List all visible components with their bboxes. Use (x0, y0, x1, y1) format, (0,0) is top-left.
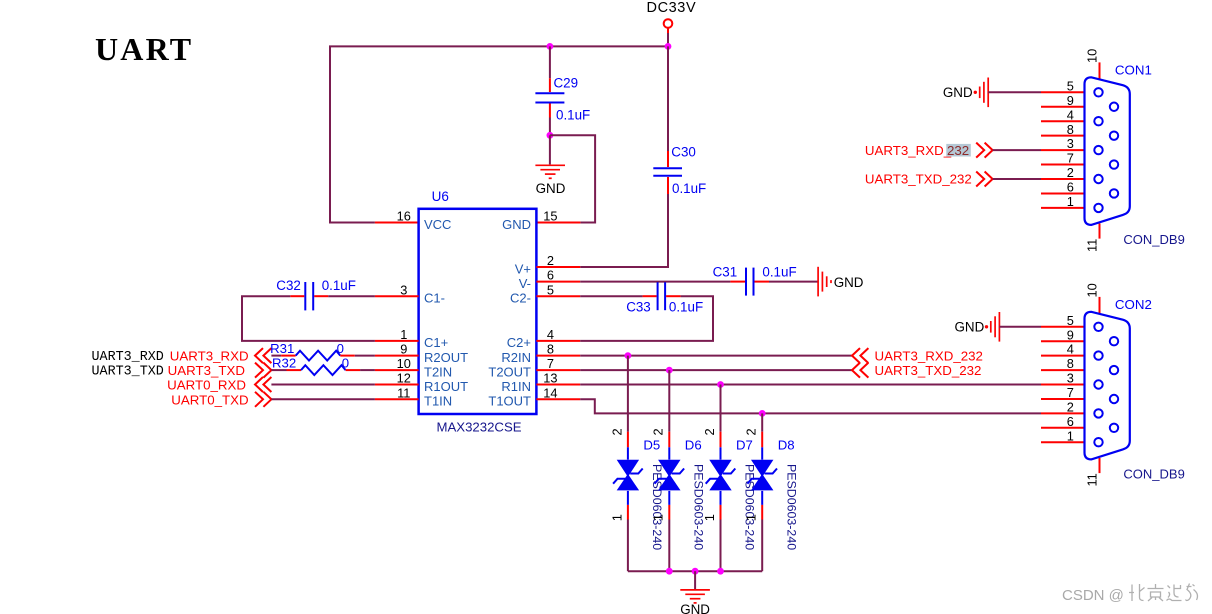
node junction C29 bottom (547, 132, 554, 139)
svg-text:C31: C31 (713, 265, 738, 280)
wire C32 left to C1+ row (242, 296, 375, 341)
ground symbol bottom (680, 590, 710, 614)
U6 pin 11 T1IN (375, 385, 419, 400)
svg-text:4: 4 (547, 327, 554, 342)
svg-text:5: 5 (1067, 313, 1074, 328)
svg-text:12: 12 (397, 371, 411, 386)
svg-text:5: 5 (1067, 78, 1074, 93)
wire port to R32 (271, 369, 301, 371)
svg-text:1: 1 (400, 327, 407, 342)
wire DC33V stub (667, 33, 669, 46)
wire GND stem bottom (694, 571, 696, 589)
resistor R32 (272, 356, 349, 375)
svg-text:UART3_RXD: UART3_RXD (92, 350, 164, 365)
svg-text:1: 1 (651, 514, 666, 521)
svg-text:C2+: C2+ (507, 335, 531, 350)
svg-text:1: 1 (744, 514, 759, 521)
svg-text:CON1: CON1 (1115, 62, 1152, 77)
svg-text:1: 1 (1067, 194, 1074, 209)
svg-text:2: 2 (609, 428, 624, 435)
svg-text:3: 3 (1067, 136, 1074, 151)
wire C29 junction to GND (549, 135, 551, 164)
svg-text:0.1uF: 0.1uF (556, 108, 590, 123)
wire C1- row to C32 (314, 295, 375, 297)
svg-text:0: 0 (337, 341, 344, 356)
svg-text:2: 2 (702, 428, 717, 435)
wire port to CON1 pin 2 (993, 178, 1041, 180)
svg-text:UART3_TXD_232: UART3_TXD_232 (865, 172, 972, 187)
wire T1OUT row to CON2 pin 2 (580, 399, 1041, 413)
wire C30 bottom stub (667, 177, 669, 194)
U6 pin 14 T1OUT (536, 385, 580, 400)
CON2 pin 2 (1041, 400, 1085, 415)
CON1 pin 6 (1041, 180, 1085, 195)
watermark CSDN (1062, 584, 1198, 605)
svg-text:1: 1 (702, 514, 717, 521)
svg-text:11: 11 (1084, 473, 1099, 486)
svg-text:R2IN: R2IN (501, 350, 531, 365)
svg-text:UART0_TXD: UART0_TXD (171, 392, 248, 407)
svg-text:7: 7 (1067, 151, 1074, 166)
port UART3_RXD (170, 348, 272, 364)
svg-text:CON_DB9: CON_DB9 (1123, 466, 1184, 481)
svg-text:R1IN: R1IN (501, 379, 531, 394)
capacitor C30 (653, 144, 706, 196)
svg-text:6: 6 (547, 268, 554, 283)
svg-text:9: 9 (1067, 93, 1074, 108)
node junction D8 top (759, 410, 766, 417)
wire C29 top stub (549, 46, 551, 92)
wire bottom bus (628, 570, 762, 572)
svg-text:PESD0603-240: PESD0603-240 (784, 464, 798, 550)
svg-text:T1OUT: T1OUT (488, 394, 531, 409)
wire D6 bottom (668, 505, 670, 571)
svg-text:U6: U6 (432, 189, 449, 204)
svg-text:C30: C30 (671, 144, 696, 159)
connector CON1 DB9 body (1085, 62, 1185, 247)
svg-text:C2-: C2- (510, 291, 531, 306)
svg-text:10: 10 (1084, 49, 1099, 63)
svg-text:10: 10 (1084, 283, 1099, 297)
svg-text:2: 2 (744, 428, 759, 435)
CON1 pin 10 (1084, 49, 1099, 79)
svg-text:PESD0603-240: PESD0603-240 (692, 464, 706, 550)
svg-text:9: 9 (400, 342, 407, 357)
ground symbol right of C31 (818, 267, 864, 297)
svg-text:CON_DB9: CON_DB9 (1123, 232, 1184, 247)
svg-text:D6: D6 (685, 437, 702, 452)
CON1 pin 2 (1041, 165, 1085, 180)
svg-text:2: 2 (1067, 400, 1074, 415)
wire R32 to pin 10 (346, 369, 375, 371)
diode D6 PESD0603-240 (651, 428, 706, 550)
svg-text:GND: GND (955, 320, 985, 335)
svg-text:3: 3 (1067, 371, 1074, 386)
U6 pin 10 T2IN (375, 356, 419, 371)
capacitor C32 (276, 278, 356, 310)
svg-text:C33: C33 (626, 299, 651, 314)
power symbol DC33V (647, 0, 697, 33)
CON1 pin 5 (1041, 78, 1085, 93)
svg-text:VCC: VCC (424, 217, 451, 232)
CON1 pin 3 (1041, 136, 1085, 151)
CON2 holes right column (1110, 337, 1118, 432)
wire C30 top stub (667, 151, 669, 167)
svg-text:T2OUT: T2OUT (488, 364, 531, 379)
CON1 pin 7 (1041, 151, 1085, 166)
svg-text:8: 8 (547, 342, 554, 357)
svg-text:R2OUT: R2OUT (424, 350, 468, 365)
wire port to R31 (271, 355, 295, 357)
wire R31 to pin 9 (340, 355, 375, 357)
CON1 pin 9 (1041, 93, 1085, 108)
svg-text:2: 2 (1067, 165, 1074, 180)
svg-text:2: 2 (547, 253, 554, 268)
connector CON2 DB9 body (1085, 297, 1185, 482)
svg-text:UART3_TXD: UART3_TXD (168, 363, 245, 378)
svg-text:GND: GND (536, 181, 566, 196)
CON2 pin 11 (1084, 458, 1099, 487)
wire CON2 GND to pin 5 (999, 326, 1041, 328)
capacitor C29 (535, 76, 590, 123)
wire C2- row to C33 (580, 295, 656, 297)
svg-text:D5: D5 (643, 437, 660, 452)
svg-text:0.1uF: 0.1uF (322, 278, 356, 293)
CON2 pin 4 (1041, 342, 1085, 357)
wire C29 bottom stub (549, 104, 551, 136)
svg-text:UART: UART (95, 31, 193, 67)
wire D6 top (668, 370, 670, 447)
svg-text:0: 0 (342, 356, 349, 371)
resistor R31 (270, 341, 344, 360)
CON2 pin 1 (1041, 428, 1085, 443)
U6 pin 6 V- (536, 268, 580, 283)
svg-text:0.1uF: 0.1uF (762, 265, 796, 280)
svg-text:R31: R31 (270, 341, 294, 356)
U6 pin 16 VCC (375, 209, 419, 224)
svg-text:UART3_RXD_: UART3_RXD_ (865, 143, 952, 158)
svg-text:CON2: CON2 (1115, 297, 1152, 312)
svg-text:10: 10 (397, 356, 411, 371)
svg-text:5: 5 (547, 282, 554, 297)
svg-text:DC33V: DC33V (647, 0, 697, 16)
CON1 pin 11 (1084, 224, 1099, 253)
svg-text:GND: GND (502, 217, 531, 232)
CON2 pin 5 (1041, 313, 1085, 328)
node junction D6 top (666, 367, 673, 374)
port UART3_RXD_232 right (852, 348, 983, 364)
port UART3_TXD_232 CON1 (865, 172, 993, 187)
port UART3_TXD_232 right (852, 363, 981, 379)
node junction bus GND stem (692, 568, 699, 575)
svg-text:7: 7 (1067, 385, 1074, 400)
CON2 pin 9 (1041, 327, 1085, 342)
node junction bus D7 (717, 568, 724, 575)
CON2 pin 10 (1084, 283, 1099, 313)
node junction D5 top (625, 352, 632, 359)
port UART3_RXD_232 CON1 (865, 143, 993, 158)
wire R2IN row (580, 355, 852, 357)
svg-text:C29: C29 (554, 76, 579, 91)
wire CON1 GND to pin 5 (988, 91, 1041, 93)
U6 pin 13 R1IN (536, 371, 580, 386)
capacitor C31 (713, 265, 797, 296)
svg-text:UART3_TXD: UART3_TXD (92, 364, 164, 379)
svg-text:R32: R32 (272, 356, 296, 371)
wire GND net to pin 15 (550, 135, 595, 222)
svg-text:7: 7 (547, 356, 554, 371)
port UART3_TXD (168, 363, 272, 379)
svg-text:PESD0603-240: PESD0603-240 (743, 464, 757, 550)
U6 pin 1 C1+ (375, 327, 419, 342)
net label UART3_RXD black (92, 350, 164, 365)
U6 pin 12 R1OUT (375, 371, 419, 386)
CON1 holes right column (1110, 103, 1118, 198)
node junction C29 top (547, 43, 554, 50)
U6 pin 8 R2IN (536, 342, 580, 357)
wire V- row to C31 (580, 281, 745, 283)
CON1 pin 4 (1041, 107, 1085, 122)
CON1 holes left column (1094, 88, 1102, 212)
svg-text:13: 13 (543, 371, 557, 386)
U6 pin names right column (488, 217, 531, 409)
wire port to CON1 pin 3 (993, 149, 1041, 151)
diode D8 PESD0603-240 (744, 428, 799, 550)
svg-text:D7: D7 (736, 437, 753, 452)
svg-text:UART3_RXD_232: UART3_RXD_232 (875, 349, 983, 364)
svg-text:1: 1 (609, 514, 624, 521)
svg-text:2: 2 (651, 428, 666, 435)
wire D8 top (761, 413, 763, 447)
svg-text:14: 14 (543, 385, 557, 400)
port UART0_TXD (171, 392, 271, 408)
svg-text:D8: D8 (778, 437, 795, 452)
wire port to pin 11 (271, 398, 375, 400)
svg-text:4: 4 (1067, 342, 1074, 357)
svg-text:11: 11 (1084, 239, 1099, 252)
ground symbol CON1 (943, 78, 988, 108)
ground symbol below C29 (535, 165, 565, 196)
svg-text:C1+: C1+ (424, 335, 448, 350)
svg-text:6: 6 (1067, 414, 1074, 429)
wire C30 to V+ pin 2 (580, 194, 668, 267)
diode D7 PESD0603-240 (702, 428, 757, 550)
U6 pin 4 C2+ (536, 327, 580, 342)
wire C33 to C2+ row (580, 296, 713, 341)
wire D5 bottom (627, 505, 629, 571)
IC U6 MAX3232CSE body (419, 189, 537, 434)
CON1 pin 8 (1041, 122, 1085, 137)
U6 pin 2 V+ (536, 253, 580, 268)
capacitor C33 (626, 282, 703, 314)
diode D5 PESD0603-240 (609, 428, 664, 550)
wire D7 top (720, 385, 722, 448)
svg-text:MAX3232CSE: MAX3232CSE (437, 419, 522, 434)
wire D8 bottom (761, 505, 763, 571)
svg-text:V+: V+ (515, 261, 531, 276)
CON2 pin 7 (1041, 385, 1085, 400)
U6 pin 7 T2OUT (536, 356, 580, 371)
svg-text:UART3_TXD_232: UART3_TXD_232 (875, 363, 982, 378)
svg-text:0.1uF: 0.1uF (672, 181, 706, 196)
svg-text:GND: GND (943, 85, 973, 100)
CON2 pin 6 (1041, 414, 1085, 429)
svg-text:4: 4 (1067, 107, 1074, 122)
CON1 pin 1 (1041, 194, 1085, 209)
node junction D7 top (717, 381, 724, 388)
svg-text:GND: GND (834, 275, 864, 290)
svg-text:9: 9 (1067, 327, 1074, 342)
svg-text:C32: C32 (276, 278, 301, 293)
CON2 pin 8 (1041, 356, 1085, 371)
svg-text:16: 16 (397, 209, 411, 224)
svg-text:UART0_RXD: UART0_RXD (167, 378, 246, 393)
svg-text:232: 232 (947, 143, 969, 158)
wire DC33V down to C30 (667, 46, 669, 151)
wire VCC top horizontal (330, 46, 668, 222)
svg-text:V-: V- (519, 276, 531, 291)
CON2 holes left column (1094, 323, 1102, 447)
svg-text:8: 8 (1067, 356, 1074, 371)
ground symbol CON2 (955, 312, 1000, 342)
svg-text:T1IN: T1IN (424, 394, 452, 409)
U6 pin names left column (424, 217, 468, 409)
svg-text:GND: GND (680, 602, 710, 614)
svg-text:PESD0603-240: PESD0603-240 (650, 464, 664, 550)
U6 pin 9 R2OUT (375, 342, 419, 357)
node junction bus D6 (666, 568, 673, 575)
svg-text:0.1uF: 0.1uF (669, 299, 703, 314)
CON2 pin 3 (1041, 371, 1085, 386)
wire T2OUT row (580, 369, 852, 371)
svg-text:T2IN: T2IN (424, 364, 452, 379)
U6 pin 5 C2- (536, 282, 580, 297)
net label UART3_TXD black (92, 364, 164, 379)
title UART (95, 31, 193, 67)
node junction DC33V column (665, 43, 672, 50)
port UART0_RXD (167, 377, 271, 393)
svg-text:R1OUT: R1OUT (424, 379, 468, 394)
svg-text:UART3_RXD: UART3_RXD (170, 349, 249, 364)
wire C31 to GND (755, 281, 819, 283)
wire port to pin 12 (271, 384, 375, 386)
svg-text:1: 1 (1067, 428, 1074, 443)
wire D5 top (627, 356, 629, 448)
U6 pin 15 GND (536, 209, 580, 224)
svg-text:11: 11 (397, 385, 410, 400)
svg-text:CSDN @: CSDN @ (1062, 587, 1124, 604)
svg-text:3: 3 (400, 282, 407, 297)
svg-text:15: 15 (543, 209, 557, 224)
svg-text:C1-: C1- (424, 291, 445, 306)
svg-text:6: 6 (1067, 180, 1074, 195)
wire R1IN row to CON2 pin 3 (580, 384, 1041, 386)
svg-text:8: 8 (1067, 122, 1074, 137)
wire D7 bottom (720, 505, 722, 571)
U6 pin 3 C1- (375, 282, 419, 297)
